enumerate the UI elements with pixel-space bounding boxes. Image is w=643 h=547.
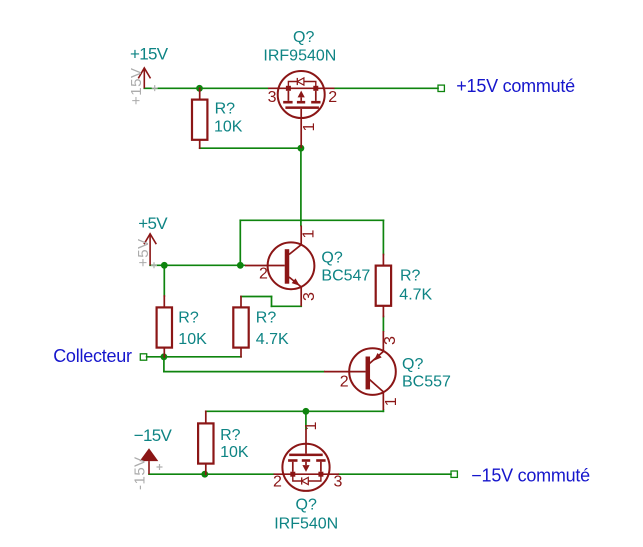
svg-text:2: 2 — [340, 374, 349, 391]
svg-text:BC547: BC547 — [321, 267, 370, 284]
svg-text:R?: R? — [220, 427, 241, 444]
svg-text:+5V: +5V — [138, 214, 168, 233]
svg-text:Q?: Q? — [321, 250, 342, 267]
svg-text:1: 1 — [301, 123, 318, 132]
svg-text:BC557: BC557 — [402, 373, 451, 390]
svg-text:+15V: +15V — [130, 45, 169, 64]
svg-text:+15V commuté: +15V commuté — [456, 76, 575, 96]
svg-text:3: 3 — [334, 474, 343, 491]
svg-text:IRF540N: IRF540N — [274, 516, 338, 533]
svg-text:-15V: -15V — [132, 456, 149, 490]
svg-text:Q?: Q? — [402, 356, 423, 373]
svg-text:1: 1 — [301, 230, 318, 239]
svg-text:4.7K: 4.7K — [399, 287, 432, 304]
svg-text:R?: R? — [215, 101, 236, 118]
svg-text:Q?: Q? — [293, 29, 314, 46]
svg-text:1: 1 — [383, 397, 400, 406]
svg-text:3: 3 — [268, 89, 277, 106]
svg-text:10K: 10K — [220, 444, 249, 461]
svg-text:+15V: +15V — [128, 68, 145, 105]
svg-text:10K: 10K — [178, 331, 207, 348]
svg-text:2: 2 — [328, 89, 337, 106]
svg-text:R?: R? — [178, 310, 199, 327]
svg-text:Q?: Q? — [296, 497, 317, 514]
svg-text:R?: R? — [400, 267, 421, 284]
svg-text:2: 2 — [259, 266, 268, 283]
svg-text:−15V: −15V — [134, 426, 173, 445]
svg-text:3: 3 — [301, 292, 318, 301]
svg-text:10K: 10K — [214, 118, 243, 135]
svg-text:4.7K: 4.7K — [256, 331, 289, 348]
svg-text:−15V commuté: −15V commuté — [471, 466, 590, 486]
svg-text:Collecteur: Collecteur — [53, 346, 132, 366]
svg-text:1: 1 — [303, 422, 320, 431]
svg-text:R?: R? — [256, 310, 277, 327]
svg-text:+5V: +5V — [135, 238, 152, 267]
svg-text:3: 3 — [382, 336, 399, 345]
svg-text:2: 2 — [273, 474, 282, 491]
svg-text:IRF9540N: IRF9540N — [263, 47, 336, 64]
